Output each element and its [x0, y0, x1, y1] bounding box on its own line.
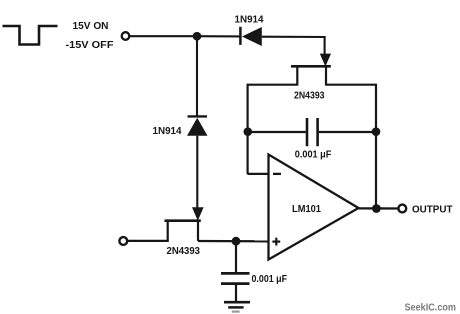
op-amp U1 minus sign: [273, 173, 281, 175]
control input terminal: [122, 32, 130, 40]
right feedback rail wire: [375, 85, 377, 209]
wire corner down to Q1 gate: [324, 36, 326, 55]
capacitor C2 bottom plate: [221, 282, 250, 285]
output terminal: [398, 205, 406, 213]
wire capacitor C1 right plate to node C: [319, 131, 376, 133]
wire diode D2 anode down to Q2 gate: [196, 136, 198, 209]
transistor Q1 channel bar: [291, 65, 331, 68]
wire signal input to Q2 left lead: [128, 240, 169, 242]
svg-text:1N914: 1N914: [153, 125, 182, 137]
capacitor C2 top plate: [221, 272, 250, 275]
diode D1 1N914 cathode bar: [239, 27, 242, 45]
svg-text:15V ON: 15V ON: [73, 20, 109, 32]
wire Q2 right lead to op-amp noninverting input: [198, 240, 269, 243]
capacitor C1 left plate: [306, 118, 309, 146]
svg-text:OUTPUT: OUTPUT: [412, 203, 453, 215]
svg-text:1N914: 1N914: [235, 14, 264, 26]
wire control input to node A: [130, 35, 198, 37]
transistor Q2 gate arrow: [192, 207, 204, 221]
transistor Q2 channel bar: [165, 219, 201, 222]
node A junction dot: [193, 32, 202, 41]
node D output junction dot: [372, 204, 381, 213]
svg-text:0.001 μF: 0.001 μF: [295, 149, 332, 161]
node B junction dot (left of C1): [244, 127, 253, 136]
capacitor C1 right plate: [316, 118, 319, 146]
svg-text:-15V OFF: -15V OFF: [66, 39, 115, 51]
wire node A to diode D1 anode side: [197, 35, 240, 37]
svg-text:0.001 μF: 0.001 μF: [252, 273, 288, 285]
svg-text:LM101: LM101: [292, 203, 321, 215]
diode D1 1N914 triangle: [242, 27, 262, 46]
svg-text:2N4393: 2N4393: [294, 90, 325, 102]
wire diode D1 to corner: [262, 36, 326, 38]
wire node E down to capacitor C2: [235, 241, 237, 272]
wire capacitor C2 to ground: [235, 285, 237, 302]
control pulse waveform symbol: [3, 26, 58, 45]
transistor Q1 right lead: [325, 66, 327, 86]
transistor Q2 left lead: [167, 221, 169, 241]
wire node A down to diode D2 cathode: [196, 36, 198, 116]
svg-text:SeekIC.com: SeekIC.com: [405, 302, 457, 313]
svg-text:2N4393: 2N4393: [167, 245, 201, 257]
node C junction dot (right of C1): [372, 127, 381, 136]
transistor Q1 left lead: [296, 66, 298, 86]
wire Q1 right lead to right rail: [326, 84, 377, 86]
transistor Q1 gate arrow: [320, 54, 331, 67]
wire left rail to op-amp inverting input: [248, 173, 269, 175]
wire Q1 left lead to left rail: [247, 84, 298, 86]
diode D2 1N914 cathode bar: [188, 115, 208, 117]
wire op-amp output to output terminal: [358, 207, 398, 209]
diode D2 1N914 triangle: [187, 118, 208, 136]
wire node B to capacitor C1 left plate: [248, 131, 306, 133]
left feedback rail wire: [247, 85, 249, 175]
op-amp U1 plus sign: [272, 241, 280, 243]
transistor Q2 right lead: [197, 221, 199, 241]
op-amp U1 triangle: [269, 155, 359, 260]
ground symbol: [224, 301, 250, 304]
signal input terminal: [119, 237, 127, 245]
node E junction dot (top of C2): [232, 237, 241, 246]
